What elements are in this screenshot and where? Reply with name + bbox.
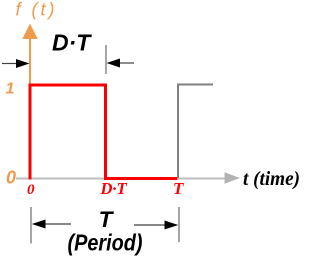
svg-text:1: 1	[6, 81, 15, 98]
T period arrow left	[32, 220, 71, 229]
svg-text:0: 0	[6, 168, 16, 188]
svg-text:D·T: D·T	[100, 179, 128, 198]
svg-text:T: T	[173, 179, 184, 198]
svg-text:f (t): f (t)	[16, 0, 58, 20]
next period line (gray)	[178, 85, 213, 179]
D.T dimension arrow right	[107, 59, 135, 68]
y-axis f(t)	[22, 24, 37, 179]
svg-text:D·T: D·T	[52, 30, 92, 56]
pulse waveform (red)	[30, 85, 177, 180]
svg-text:t (time): t (time)	[243, 168, 300, 190]
svg-text:(Period): (Period)	[68, 230, 143, 256]
D.T dimension arrow left	[2, 59, 30, 68]
T period tick right	[178, 207, 180, 242]
svg-text:T: T	[99, 207, 115, 232]
D.T dimension tick	[105, 45, 107, 74]
T period tick left	[30, 207, 32, 244]
svg-text:0: 0	[27, 182, 35, 198]
T period arrow right	[134, 221, 178, 230]
x-axis (time axis)	[16, 172, 240, 184]
